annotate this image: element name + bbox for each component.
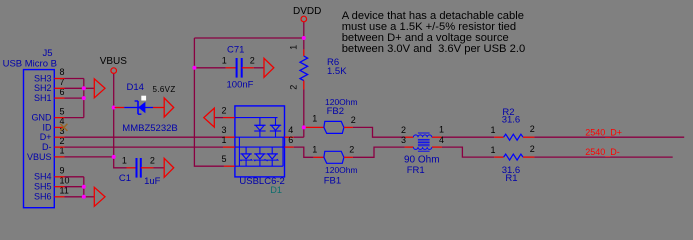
power port DVDD (293, 6, 321, 22)
svg-text:2: 2 (222, 105, 227, 115)
wire SH5 row (65, 186, 84, 188)
capacitor C71 (226, 58, 254, 78)
svg-text:1: 1 (122, 156, 127, 166)
svg-text:2: 2 (351, 115, 356, 125)
junction DVDD rail/R6 (302, 36, 306, 40)
junction SH2/shield vertical (82, 86, 86, 90)
svg-text:2: 2 (250, 56, 255, 66)
ground arrow at shield group (94, 79, 105, 98)
svg-text:2: 2 (530, 144, 535, 154)
D1 internal diode network (235, 118, 285, 167)
wire D14 tap (113, 107, 116, 109)
ESD protection array D1 USBLC6-2 body (235, 106, 285, 177)
svg-text:2: 2 (401, 125, 406, 135)
ground arrow at lower shield group (94, 187, 105, 206)
svg-text:FB2: FB2 (327, 106, 344, 117)
wire net 2540_D- (534, 156, 672, 158)
zener diode D14 (115, 101, 165, 114)
ground arrow at D14 (164, 98, 174, 117)
svg-text:MMBZ5232B: MMBZ5232B (122, 123, 177, 134)
wire DVDD top rail (194, 37, 303, 39)
svg-text:ID: ID (43, 122, 53, 132)
wire D1 pin 4 jog (294, 136, 304, 138)
svg-text:4: 4 (439, 135, 444, 145)
capacitor C1 (127, 158, 154, 178)
wire D+ net row (65, 136, 224, 138)
svg-text:2540_D+: 2540_D+ (585, 127, 622, 137)
D1 pin 1 stub (223, 146, 235, 148)
wire C1 to gnd arrow (154, 167, 165, 169)
wire D- net row (65, 146, 224, 148)
ferrite bead FB2 (306, 121, 353, 133)
J5 pin 6 SH1 (54, 97, 64, 99)
svg-text:1: 1 (439, 125, 444, 135)
wire D1 pin 6 jog down to FB1 (294, 147, 314, 157)
connector J5 value label USB Micro B (3, 59, 57, 70)
wire SH3 row (65, 78, 84, 80)
svg-text:2: 2 (150, 156, 155, 166)
svg-text:DVDD: DVDD (293, 6, 321, 17)
wire net 2540_D+ (534, 136, 684, 138)
svg-text:9: 9 (60, 166, 65, 176)
note text block (342, 10, 525, 55)
svg-text:2: 2 (349, 145, 354, 155)
J5 pin 1 VBUS (54, 156, 64, 158)
svg-text:1: 1 (491, 145, 496, 155)
J5 pin 3 D+ (54, 136, 64, 138)
wire SH4 row (65, 176, 84, 178)
D1 pin 5 stub (224, 165, 235, 167)
junction SH6 (82, 195, 86, 199)
junction VBUS/C1 (112, 155, 116, 159)
svg-text:31.6: 31.6 (502, 114, 521, 125)
wire to lower gnd arrow (84, 196, 95, 198)
svg-text:8: 8 (60, 67, 65, 77)
J5 pin 2 D- (54, 146, 64, 148)
svg-text:VBUS: VBUS (100, 56, 128, 67)
resistor R2 (494, 134, 534, 140)
wire FB2 to FR1 pin 2 (353, 127, 405, 137)
wire VBUS vertical (113, 73, 115, 156)
svg-text:1.5K: 1.5K (327, 66, 347, 77)
common-mode choke FR1 (405, 133, 442, 151)
svg-text:100nF: 100nF (227, 80, 254, 91)
svg-text:SH4: SH4 (34, 172, 52, 182)
J5 pin name labels (27, 73, 52, 201)
svg-text:1: 1 (222, 56, 227, 66)
ferrite bead FB1 (313, 151, 353, 163)
wire D1 pin 2 to gnd arrow (214, 117, 223, 119)
svg-text:SH5: SH5 (34, 182, 52, 192)
junction SH5 (82, 185, 86, 189)
svg-text:FB1: FB1 (324, 175, 341, 186)
D1 pin number labels (222, 105, 294, 164)
svg-text:5: 5 (222, 154, 227, 164)
svg-text:1: 1 (491, 125, 496, 135)
svg-text:5: 5 (60, 106, 65, 116)
svg-text:SH2: SH2 (34, 83, 52, 93)
wire VBUS down to C1 (114, 157, 127, 168)
D1 pin 3 stub (223, 136, 235, 138)
svg-text:VBUS: VBUS (27, 152, 52, 162)
svg-text:4: 4 (288, 125, 293, 135)
ground arrow at C1 (164, 158, 174, 177)
D14 white change-marker square (141, 96, 146, 101)
svg-text:120Ohm: 120Ohm (325, 165, 358, 175)
ground arrow at D1 pin 2 (left pointing) (204, 108, 215, 127)
svg-text:FR1: FR1 (407, 165, 425, 176)
svg-text:2: 2 (289, 85, 299, 90)
svg-text:D-: D- (42, 142, 52, 152)
wire lower shield vertical (83, 177, 85, 197)
svg-text:GND: GND (32, 113, 53, 123)
wire SH1 row (65, 97, 84, 99)
J5 pin 5 GND (54, 117, 64, 119)
svg-text:6: 6 (288, 135, 293, 145)
svg-text:2: 2 (530, 124, 535, 134)
J5 pin 10 SH5 (54, 186, 64, 188)
svg-text:USB Micro B: USB Micro B (3, 59, 57, 70)
resistor R6 (vertical) (300, 49, 308, 89)
wire GND row (65, 117, 84, 119)
wire VBUS row (65, 156, 114, 158)
svg-text:D14: D14 (127, 82, 144, 93)
svg-text:SH6: SH6 (34, 192, 52, 202)
svg-text:C1: C1 (119, 173, 131, 184)
svg-text:1: 1 (289, 45, 299, 50)
wire to upper gnd arrow (84, 87, 95, 89)
svg-text:D+: D+ (40, 132, 52, 142)
junction DVDD/C71 (192, 66, 196, 70)
wire FR1 pin 4 jog to R1 (442, 147, 494, 157)
no-connect X on J5 pin 4 ID (60, 124, 67, 131)
wire C71 to gnd arrow (254, 67, 264, 69)
wire C71 left (194, 67, 225, 69)
svg-text:90 Ohm: 90 Ohm (404, 155, 440, 166)
wire FB1 to FR1 pin 3 (353, 147, 405, 157)
svg-text:3: 3 (401, 135, 406, 145)
J5 pin 11 SH6 (54, 196, 64, 198)
wire FR1 pin 1 to R2 (442, 136, 494, 138)
wire DVDD stem (303, 22, 305, 50)
J5 pin 8 SH3 (54, 78, 64, 80)
ground arrow at C71 (264, 58, 274, 77)
D1 pin 2 stub (223, 117, 235, 119)
FR1 pin number labels 2 3 1 4 (401, 125, 444, 146)
connector J5 body (24, 70, 55, 208)
wire SH2 row (65, 87, 84, 89)
svg-text:C71: C71 (227, 45, 244, 56)
wire R6 to D1 pin 4 vertical (303, 89, 305, 137)
J5 pin number labels 8 7 6 5 4 3 2 1 9 10 11 (60, 67, 70, 195)
svg-text:1: 1 (312, 114, 317, 124)
svg-text:SH3: SH3 (34, 73, 52, 83)
wire SH6 row (65, 196, 84, 198)
svg-text:5.6VZ: 5.6VZ (153, 85, 176, 94)
D1 pin 4 stub (285, 136, 294, 138)
svg-text:3: 3 (222, 125, 227, 135)
power port VBUS (100, 56, 128, 73)
svg-text:2540_D-: 2540_D- (585, 147, 620, 157)
junction VBUS/D14 (112, 106, 116, 110)
junction R6/FB2/D1 pin 4 (302, 125, 306, 129)
D1 pin 6 stub (285, 146, 294, 148)
resistor R1 (494, 154, 534, 160)
wire DVDD left vertical to D1 pin 5 (194, 38, 224, 166)
svg-text:1uF: 1uF (144, 176, 161, 187)
J5 pin 7 SH2 (54, 87, 64, 89)
junction SH1/shield vertical (82, 96, 86, 100)
svg-text:J5: J5 (43, 48, 53, 59)
J5 pin 9 SH4 (54, 176, 64, 178)
svg-text:between 3.0V and 3.6V per USB: between 3.0V and 3.6V per USB 2.0 (342, 43, 525, 55)
svg-text:1: 1 (312, 145, 317, 155)
svg-text:D1: D1 (270, 185, 282, 195)
svg-text:R1: R1 (505, 173, 517, 184)
svg-text:1: 1 (222, 135, 227, 145)
wire shield group vertical (83, 79, 85, 118)
svg-text:SH1: SH1 (34, 93, 52, 103)
J5 pin 4 ID (54, 126, 63, 128)
